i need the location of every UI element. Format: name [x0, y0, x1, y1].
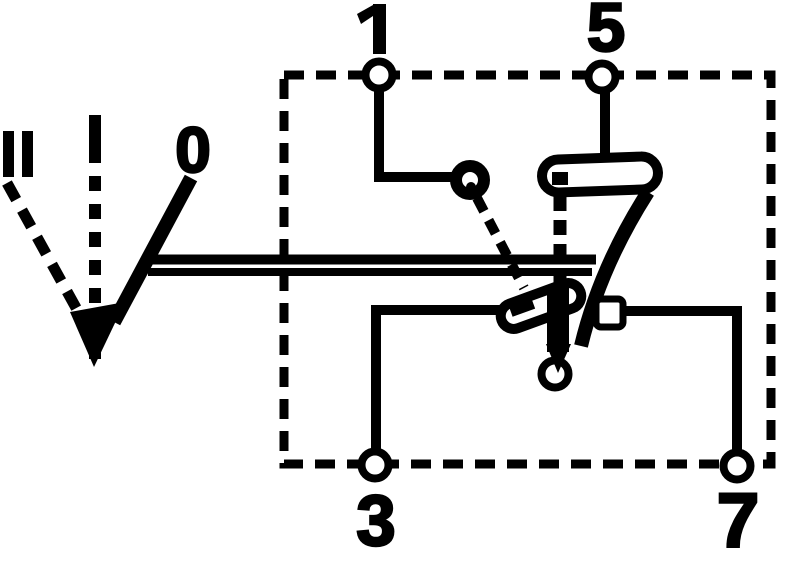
terminal 5 — [589, 64, 616, 91]
fixed ring contact — [456, 166, 484, 194]
contact pad square — [596, 299, 623, 327]
handle lever shaft — [114, 178, 191, 322]
svg-text:5: 5 — [587, 0, 625, 66]
bridge contact ellipse — [541, 156, 658, 193]
label II bar 1 — [3, 131, 14, 177]
wire from terminal 3 up to lower contact assembly — [376, 310, 510, 450]
lower movable contact ellipse — [497, 279, 585, 332]
contact dash inside lower ellipse — [509, 298, 535, 317]
dashed travel line from fixed contact — [477, 198, 524, 288]
position II dashed line — [7, 183, 80, 315]
svg-text:3: 3 — [356, 482, 396, 561]
mechanical coupling bar lower line — [148, 268, 592, 276]
position I dashed line — [89, 115, 101, 361]
actuating lever arrowhead — [546, 344, 571, 373]
actuating lever shaft — [581, 192, 648, 346]
svg-text:0: 0 — [175, 114, 211, 186]
handle lever arrowhead — [70, 302, 125, 367]
label 1 flag — [357, 5, 373, 24]
wire from terminal 5 to bridge contact — [600, 90, 610, 158]
switch body dashed outline — [284, 75, 771, 464]
mechanical coupling bar upper line — [144, 255, 596, 265]
dotted travel line under bridge contact — [554, 196, 567, 285]
label 1 stem — [373, 4, 386, 54]
svg-text:7: 7 — [717, 478, 760, 564]
pivot circle — [542, 361, 569, 388]
ring contact center dot — [466, 182, 476, 192]
actuating lever arrow column — [547, 288, 569, 352]
label II bar 2 — [22, 131, 33, 177]
terminal 1 — [366, 62, 393, 89]
terminal 7 — [724, 453, 751, 480]
wire from terminal 1 to fixed contact — [379, 90, 455, 177]
contact dot inside bridge — [552, 172, 568, 185]
terminal 3 — [362, 452, 389, 479]
wire from lower contact pad to terminal 7 — [620, 311, 737, 450]
